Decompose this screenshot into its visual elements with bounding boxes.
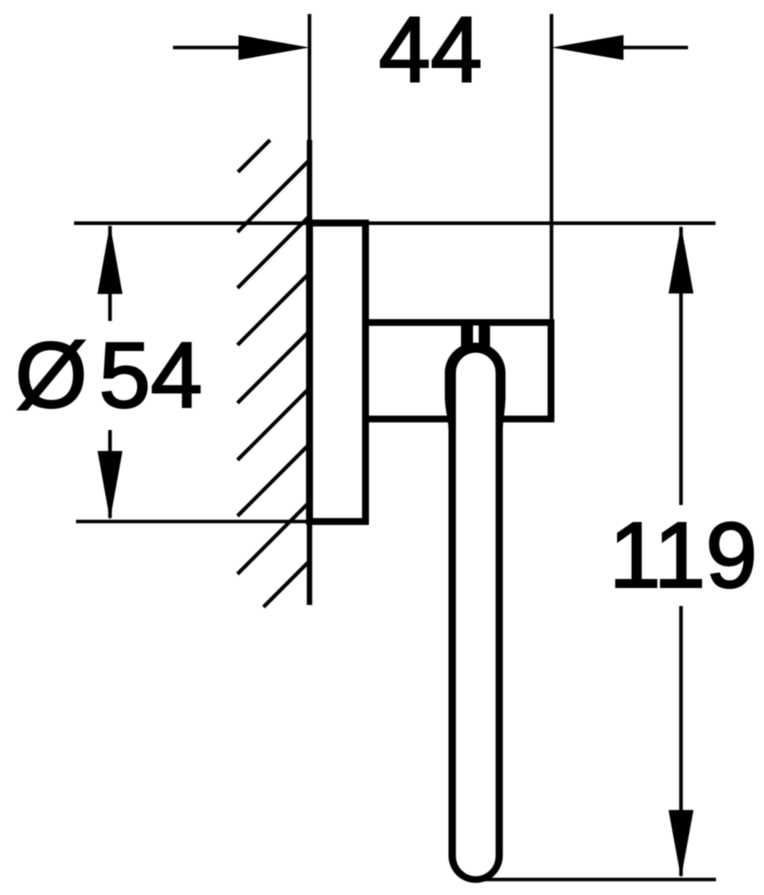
dimension line 119 (vertical, upper segment) (679, 227, 683, 505)
holder body top edge (363, 319, 555, 326)
mounting plate (escutcheon, side view) (310, 223, 366, 522)
hatch stroke 2 (238, 160, 310, 232)
svg-text:Ø: Ø (15, 323, 87, 427)
holder body right edge (548, 320, 555, 423)
top extension line (plate top / dim 119 top) (74, 221, 716, 225)
hatch stroke 1 (short, top) (238, 140, 270, 172)
dimension line 44 left tail (173, 46, 243, 50)
bottom extension line (dim 119 bottom) (484, 878, 716, 882)
extension line of dim 44 (left, above wall) (308, 14, 312, 223)
arrowhead 44 right (552, 35, 624, 60)
dimension line 44 right tail (619, 46, 688, 50)
hatch stroke 3 (238, 216, 310, 288)
hatch stroke 9 (clipped at wall bottom) (264, 561, 310, 607)
dimension line 54 (vertical, upper segment) (108, 226, 112, 321)
ring loop inner (white stadium) (456, 353, 496, 877)
hatch stroke 6 (238, 388, 310, 460)
wall line (307, 140, 312, 605)
arrowhead 54 down (98, 451, 123, 520)
svg-text:119: 119 (609, 503, 757, 607)
dimension line 119 (vertical, lower segment) (679, 606, 683, 876)
extension line of dim 44 (right) (550, 14, 554, 323)
svg-text:44: 44 (379, 0, 482, 102)
dimension line 54 (vertical, lower segment) (108, 430, 112, 518)
svg-text:54: 54 (99, 323, 202, 427)
hatch stroke 7 (238, 444, 310, 516)
holder body bottom edge (363, 416, 555, 423)
pin slot (white gap) (473, 326, 479, 347)
wall hatching (45 degree strokes) (238, 140, 310, 607)
arrowhead 54 up (98, 225, 123, 295)
ring knuckle (outer contour) (445, 343, 506, 883)
hatch stroke 4 (238, 273, 310, 345)
arrowhead 119 up (669, 226, 694, 294)
bottom extension line of plate (dim 54 bottom) (76, 520, 369, 524)
arrowhead 119 down (669, 810, 694, 878)
hatch stroke 8 (238, 502, 310, 574)
pin bars (ring pivot) (461, 322, 490, 354)
hatch stroke 5 (238, 331, 310, 403)
arrowhead 44 left (239, 35, 310, 60)
